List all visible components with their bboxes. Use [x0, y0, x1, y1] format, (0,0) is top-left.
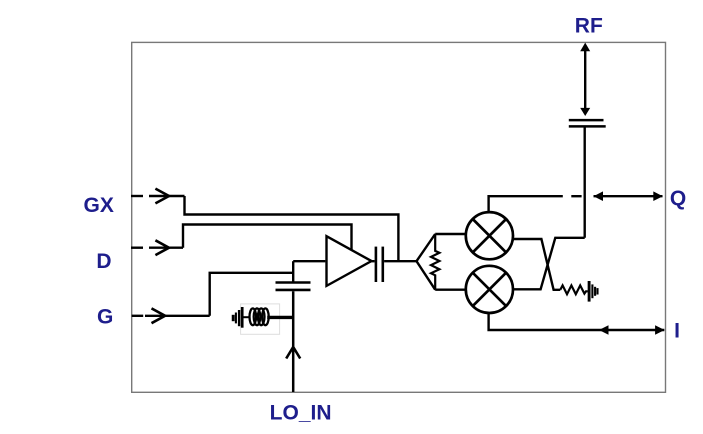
mixer U1 (top): [466, 212, 513, 259]
wire crossover to RF cap: [584, 127, 586, 238]
ground GND2: [588, 281, 591, 302]
wire splitter to mixer1: [435, 233, 467, 235]
ground GND1 (choke): [232, 315, 235, 321]
wire G to amp input node: [210, 273, 294, 316]
wire LO_IN vertical: [292, 291, 295, 392]
wire amp input: [293, 260, 325, 262]
mixer U2 (bottom): [466, 266, 513, 313]
chip boundary: [132, 42, 666, 392]
capacitor C2 (coupling after amp): [375, 247, 378, 282]
port GX dashed stub: [131, 195, 143, 197]
port LO_IN arrow: [286, 347, 300, 359]
svg-text:Q: Q: [670, 187, 686, 210]
wire C2 to splitter: [384, 260, 416, 262]
resistor R2 (I-side termination): [560, 285, 588, 294]
capacitor C3 (RF port): [569, 119, 604, 122]
port GX arrow: [149, 195, 185, 197]
wire mixer1 to Q line: [489, 196, 563, 212]
svg-text:I: I: [674, 320, 680, 343]
wire splitter to mixer2: [435, 289, 467, 291]
port Q double arrow: [594, 195, 663, 197]
resistor R1 (splitter shunt): [431, 234, 439, 290]
svg-text:D: D: [96, 250, 111, 273]
port RF double arrow: [584, 51, 586, 109]
wire mixer2 to crossover: [512, 238, 584, 289]
wire mixer1 to crossover: [512, 239, 560, 290]
svg-text:G: G: [97, 305, 113, 328]
port D dashed stub: [131, 246, 143, 248]
capacitor C1 (LO coupling): [276, 281, 311, 284]
splitter wires: [417, 234, 436, 290]
wire ground to choke: [243, 316, 250, 318]
wire D to amp bias: [183, 225, 352, 251]
svg-text:RF: RF: [575, 14, 603, 37]
port G arrow: [145, 315, 210, 317]
port D arrow: [149, 246, 183, 248]
wire choke to LO line: [267, 316, 293, 319]
port I double arrow: [599, 325, 609, 335]
svg-text:GX: GX: [84, 194, 114, 217]
wire GX to amp output node: [185, 196, 399, 261]
svg-text:LO_IN: LO_IN: [270, 402, 332, 425]
wire amp output: [372, 260, 375, 262]
port G dashed stub: [132, 315, 144, 317]
inductor L1 (choke coil): [250, 308, 257, 325]
wire Q crossing dash: [571, 195, 581, 197]
choke selection box: [241, 304, 280, 334]
wire mixer2 to I line: [489, 313, 665, 330]
node amp input vertical: [292, 261, 294, 282]
op-amp buffer A1: [327, 236, 372, 286]
